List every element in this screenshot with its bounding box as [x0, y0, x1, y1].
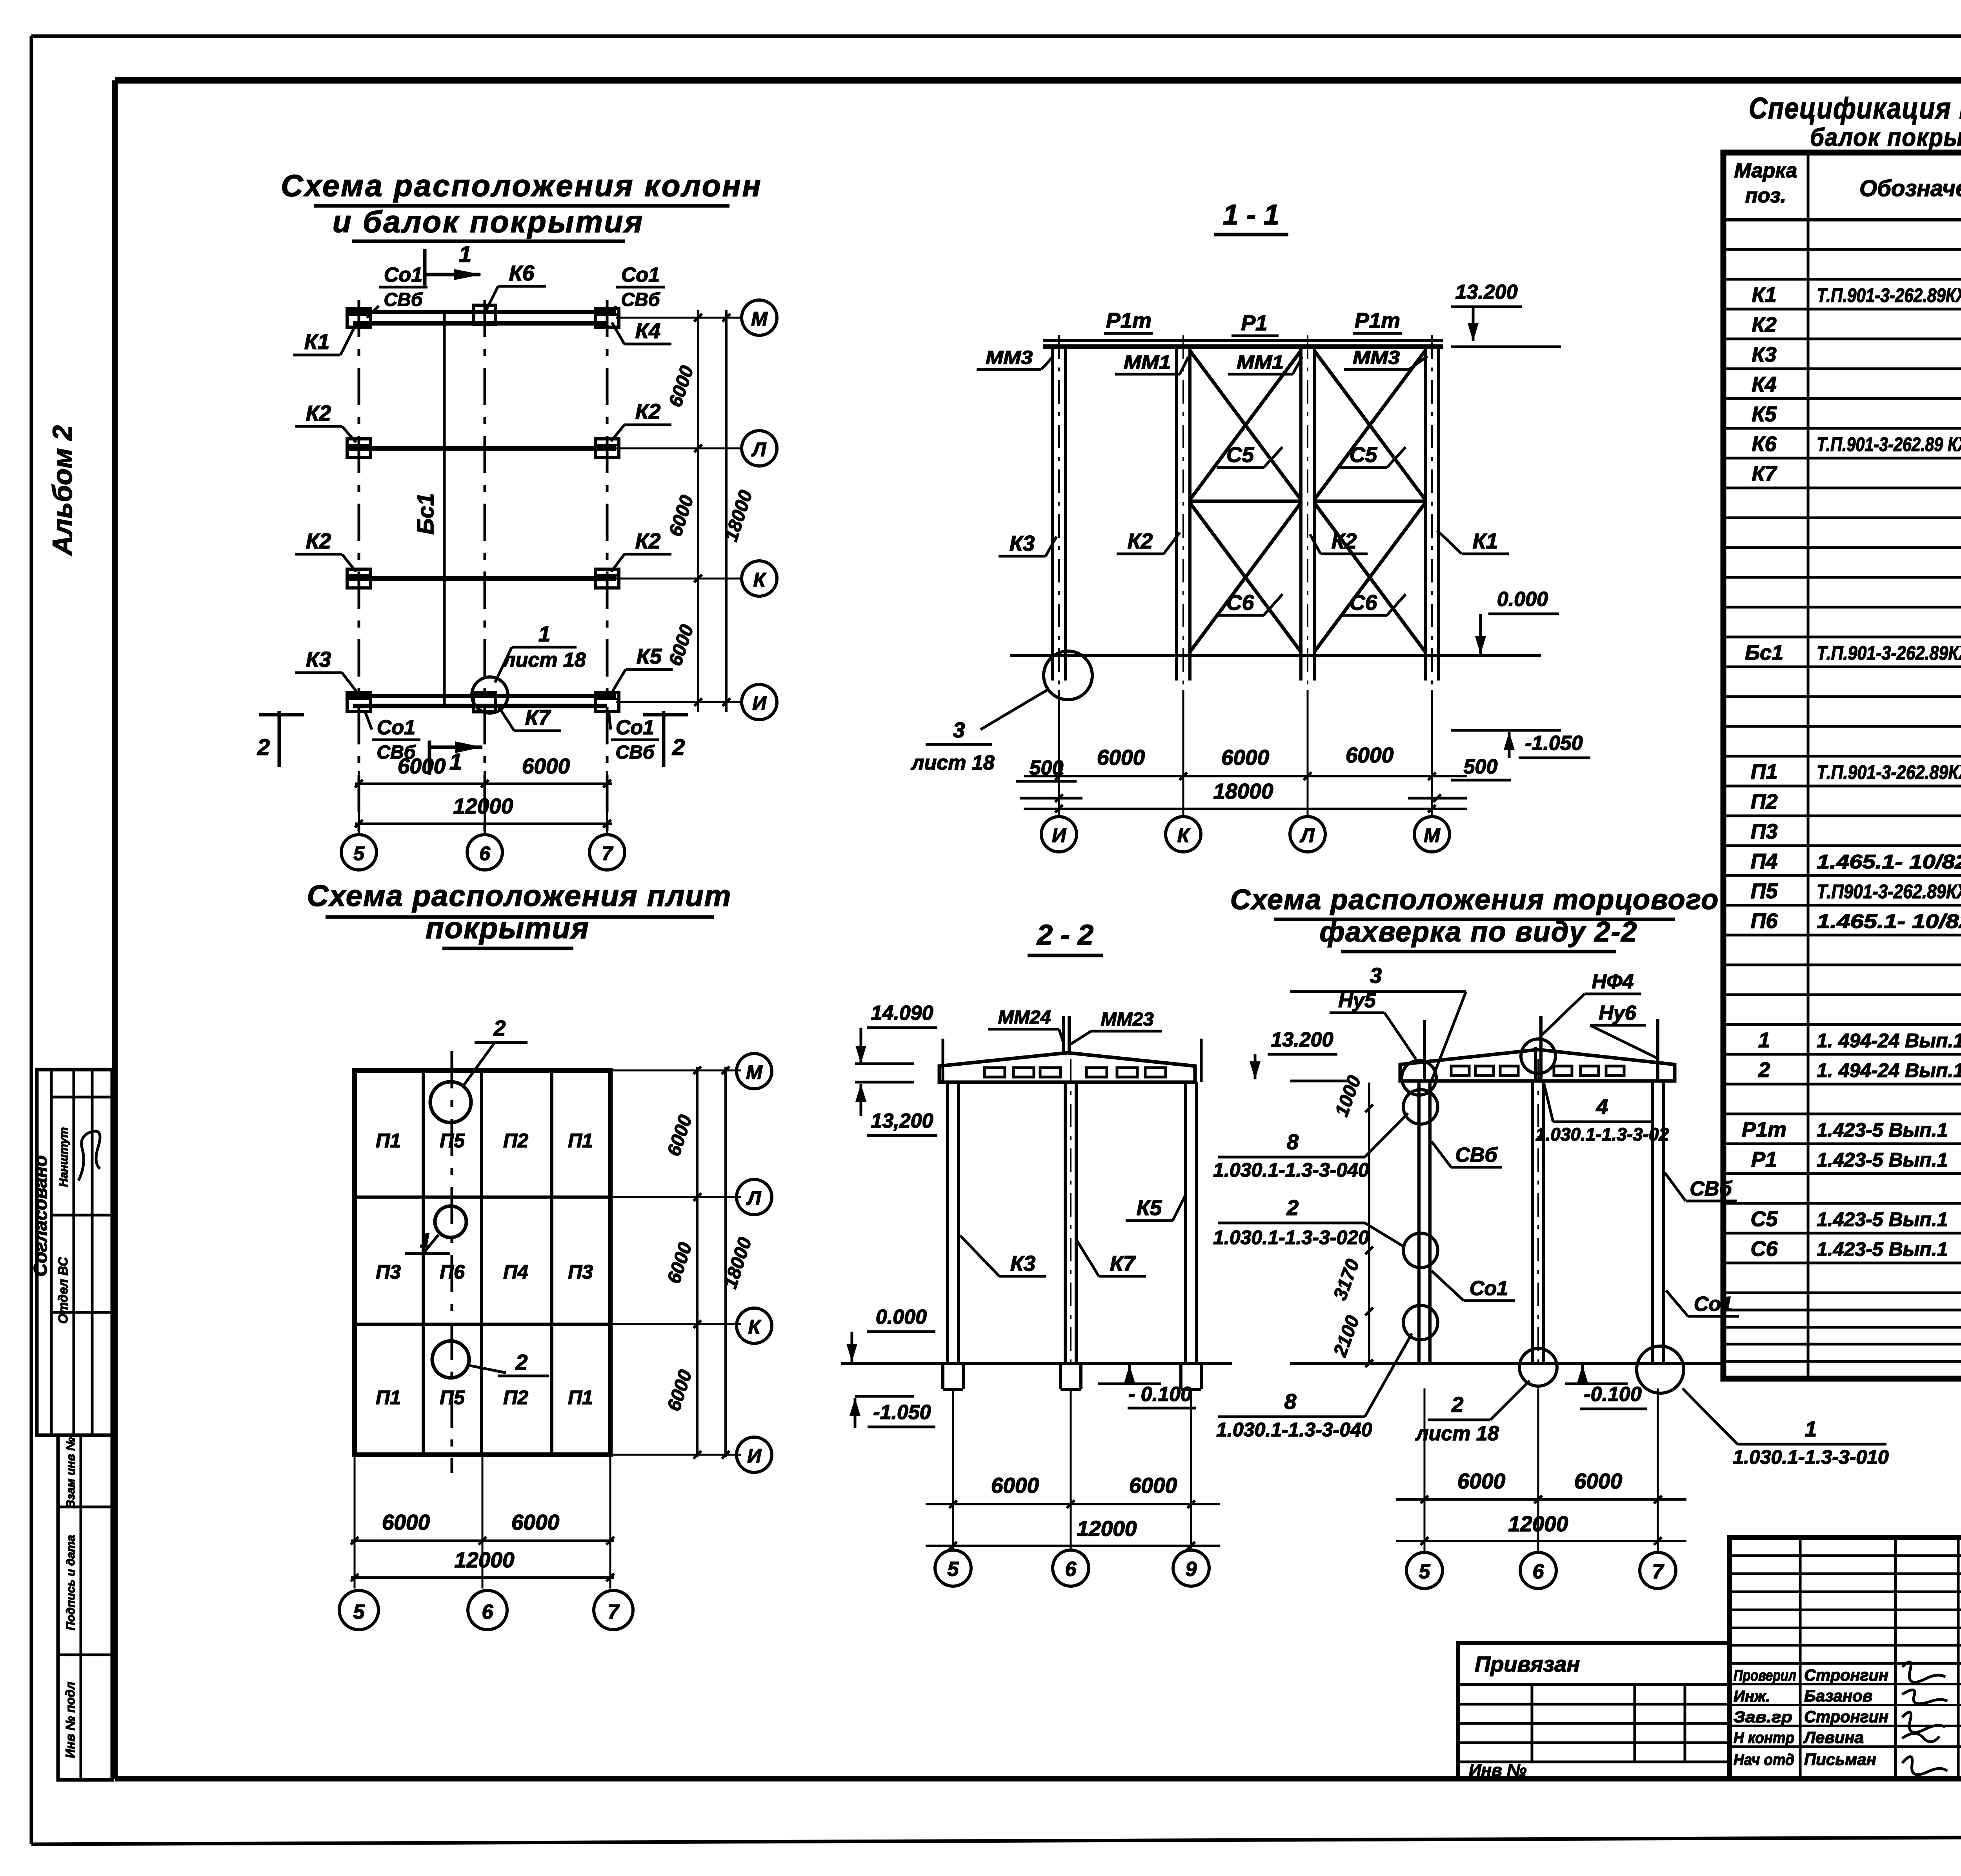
sidebar stamp block upper (Soglasovano): [30, 1070, 112, 1435]
section 2-2 column bases: [943, 1363, 1201, 1389]
svg-text:13.200: 13.200: [1455, 281, 1517, 304]
svg-text:П5: П5: [440, 1130, 465, 1152]
svg-text:2: 2: [493, 1016, 506, 1040]
svg-text:фахверка по виду 2-2: фахверка по виду 2-2: [1320, 916, 1638, 948]
plan: column K1: [347, 308, 371, 327]
svg-text:К4: К4: [1752, 373, 1776, 396]
fachwerk bottom dimensions: [1396, 1388, 1686, 1551]
spec table rows: [1742, 252, 1961, 1261]
svg-text:Р1: Р1: [1751, 1148, 1777, 1171]
svg-text:НФ4: НФ4: [1592, 970, 1634, 993]
svg-text:ММ24: ММ24: [998, 1007, 1051, 1028]
svg-text:К7: К7: [1110, 1251, 1136, 1276]
svg-text:5: 5: [1419, 1560, 1431, 1583]
svg-text:П5: П5: [1751, 879, 1778, 903]
svg-text:1. 494-24 Вып.1: 1. 494-24 Вып.1: [1817, 1059, 1961, 1081]
svg-text:500: 500: [1464, 755, 1498, 778]
svg-text:П1: П1: [568, 1387, 593, 1408]
svg-text:1: 1: [459, 242, 471, 267]
svg-text:Со1: Со1: [1694, 1293, 1732, 1316]
svg-text:К2: К2: [306, 529, 331, 553]
svg-text:К2: К2: [1128, 529, 1153, 553]
svg-text:0.000: 0.000: [1497, 588, 1548, 611]
svg-text:и балок покрытия: и балок покрытия: [333, 204, 644, 239]
plan: axis centerlines: [359, 300, 607, 835]
svg-text:12000: 12000: [1077, 1516, 1137, 1541]
svg-text:2: 2: [257, 735, 270, 760]
plan: label Co1/SVb top-left: [367, 264, 427, 318]
svg-text:Инж.: Инж.: [1734, 1688, 1770, 1705]
section 1-1 labels C5: [1217, 442, 1406, 468]
plan: label K2 right row K: [611, 529, 671, 572]
svg-text:-0.100: -0.100: [1584, 1383, 1642, 1406]
section 1-1 labels MM3 MM1: [977, 348, 1428, 374]
plan: beam row K: [347, 576, 616, 581]
svg-text:Письман: Письман: [1804, 1750, 1876, 1769]
svg-text:К5: К5: [1752, 402, 1777, 426]
svg-text:Р1т: Р1т: [1106, 308, 1151, 333]
svg-text:Р1т: Р1т: [1742, 1118, 1786, 1141]
svg-text:6: 6: [1065, 1558, 1077, 1581]
svg-text:5: 5: [948, 1558, 959, 1581]
svg-text:К5: К5: [1137, 1195, 1162, 1220]
plan: bottom dimension lines: [355, 754, 612, 833]
svg-text:СВб: СВб: [1690, 1177, 1732, 1200]
svg-text:ММ23: ММ23: [1101, 1009, 1154, 1030]
fachwerk level 13.200: [1250, 1028, 1349, 1081]
plan: column K2 row L left: [347, 439, 371, 458]
section 1-1 labels C6: [1217, 590, 1406, 615]
svg-text:СВб: СВб: [384, 289, 423, 310]
svg-text:1.465.1- 10/82 Вып.1: 1.465.1- 10/82 Вып.1: [1817, 910, 1961, 932]
fachwerk label 1 / 1.030.1-1.3-3-010: [1683, 1388, 1889, 1468]
svg-text:2 - 2: 2 - 2: [1036, 919, 1093, 951]
plan: bottom axis circles 5 6 7: [341, 835, 625, 870]
svg-text:И: И: [747, 1445, 762, 1467]
title block main: [1730, 1538, 1961, 1780]
svg-text:6: 6: [482, 1601, 494, 1623]
section 2-2 level 0.000: [846, 1306, 935, 1362]
svg-text:К3: К3: [1752, 343, 1776, 366]
fachwerk axis circles 5 6 7: [1406, 1552, 1676, 1589]
svg-text:С6: С6: [1750, 1237, 1778, 1261]
fachwerk ridge balloon: [1521, 1039, 1555, 1074]
svg-text:1.030.1-1.3-3-020: 1.030.1-1.3-3-020: [1213, 1226, 1369, 1248]
svg-text:5: 5: [353, 1601, 365, 1623]
svg-text:6: 6: [1533, 1560, 1544, 1583]
svg-text:Ну5: Ну5: [1338, 989, 1376, 1012]
svg-text:ММ3: ММ3: [1353, 348, 1400, 368]
fachwerk bottom balloons: [1519, 1346, 1684, 1393]
svg-text:Стронгин: Стронгин: [1804, 1666, 1888, 1684]
title: scheme of columns and beams: [281, 168, 762, 241]
svg-text:К7: К7: [1752, 462, 1777, 486]
svg-text:1.423-5 Вып.1: 1.423-5 Вып.1: [1817, 1208, 1948, 1230]
svg-text:П2: П2: [503, 1387, 528, 1408]
svg-text:П2: П2: [503, 1130, 528, 1152]
svg-text:К2: К2: [1752, 313, 1776, 337]
plan: roof beams row M: [347, 312, 616, 323]
plates plan grid: [355, 1070, 610, 1455]
svg-text:СВб: СВб: [615, 742, 655, 763]
privyazan block: [1458, 1643, 1730, 1780]
plan: label Co1/SVb top-right: [612, 264, 665, 314]
section 1-1 braces X lower K-L: [1190, 503, 1301, 652]
plates plan detail circles: [405, 1016, 549, 1378]
svg-text:1: 1: [538, 622, 551, 646]
svg-text:М: М: [1424, 824, 1441, 846]
svg-text:Подпись и дата: Подпись и дата: [64, 1535, 77, 1630]
title block signatures: [1734, 1662, 1947, 1774]
svg-text:К3: К3: [1010, 1251, 1035, 1276]
fachwerk columns: [1419, 1016, 1663, 1363]
plan: column K6: [474, 305, 496, 325]
svg-text:К1: К1: [304, 329, 329, 354]
svg-text:Со1: Со1: [377, 716, 415, 739]
svg-text:12000: 12000: [453, 794, 513, 818]
section 2-2 level 13.200: [855, 1082, 937, 1135]
section 2-2 roof beam: [939, 1016, 1195, 1082]
svg-text:6000: 6000: [1457, 1469, 1506, 1493]
svg-text:С5: С5: [1226, 442, 1255, 467]
section 1-1 braces X upper K-L: [1190, 351, 1301, 501]
svg-text:Левина: Левина: [1803, 1728, 1864, 1747]
svg-text:К6: К6: [509, 261, 535, 285]
svg-text:Схема расположения торцового: Схема расположения торцового: [1230, 884, 1719, 915]
svg-text:Ну6: Ну6: [1599, 1002, 1636, 1024]
svg-text:Нач отд: Нач отд: [1734, 1751, 1794, 1769]
svg-text:лист 18: лист 18: [910, 751, 995, 774]
svg-text:Нанштут: Нанштут: [57, 1127, 70, 1187]
svg-text:П6: П6: [440, 1261, 465, 1283]
fachwerk label SVb left: [1432, 1141, 1502, 1167]
plan: column K2 row L right: [595, 439, 619, 458]
plan: section flag 2 left: [257, 711, 304, 767]
section 1-1 dim 500 left: [1016, 757, 1082, 802]
fachwerk label 4 / 1.030.1-1.3-3-02: [1535, 1083, 1669, 1145]
svg-text:Со1: Со1: [616, 716, 654, 739]
svg-text:К6: К6: [1752, 432, 1777, 456]
fachwerk label Co1 left: [1432, 1271, 1515, 1301]
plate labels row 1: [376, 1130, 593, 1152]
svg-text:П1: П1: [376, 1387, 401, 1408]
plan: label K7: [498, 705, 561, 731]
section 1-1 bottom dimensions: [1024, 690, 1467, 815]
svg-text:Стронгин: Стронгин: [1804, 1707, 1888, 1726]
svg-text:Привязан: Привязан: [1475, 1652, 1580, 1676]
section 1-1 columns: [1052, 335, 1439, 690]
svg-text:К2: К2: [306, 401, 331, 425]
fachwerk label 2 / list 18: [1415, 1381, 1530, 1445]
svg-text:Р1: Р1: [1241, 311, 1267, 335]
section 1-1 base detail circle and label 3 list 18: [910, 651, 1092, 774]
plan: column K5: [595, 693, 619, 711]
section 1-1 level -1.050: [1451, 730, 1590, 758]
section 1-1 title: [1214, 199, 1288, 235]
svg-text:К1: К1: [1752, 283, 1776, 307]
svg-text:С6: С6: [1350, 590, 1377, 615]
svg-text:К5: К5: [637, 644, 662, 668]
svg-text:лист 18: лист 18: [1415, 1422, 1499, 1445]
plan: beam row L: [347, 446, 616, 451]
plan: column K3: [347, 693, 371, 711]
spec table grid: [1723, 153, 1961, 1379]
title: scheme of roof plates: [307, 879, 732, 948]
fachwerk level -0.100: [1565, 1365, 1647, 1409]
fachwerk title: [1230, 884, 1719, 952]
svg-text:6000: 6000: [991, 1473, 1039, 1498]
plan: section flag 2 right: [643, 711, 688, 767]
svg-text:Зав.гр: Зав.гр: [1734, 1709, 1792, 1726]
spec table title: [1749, 92, 1961, 151]
svg-text:Т.П.901-3-262.89КЖИ.50.0.0.0: Т.П.901-3-262.89КЖИ.50.0.0.0: [1817, 642, 1961, 664]
svg-text:5: 5: [353, 842, 365, 864]
svg-text:Со1: Со1: [621, 264, 660, 286]
svg-text:Инв №: Инв №: [1469, 1761, 1526, 1780]
svg-text:С5: С5: [1750, 1207, 1778, 1231]
plan: beam Bc1 line: [443, 310, 446, 706]
svg-text:И: И: [1052, 824, 1066, 846]
section 1-1 labels K3 K2 K2 K1: [999, 529, 1509, 556]
svg-text:Инв № подл: Инв № подл: [63, 1681, 77, 1758]
svg-text:Н контр: Н контр: [1734, 1729, 1794, 1747]
plan: axis circles M L K I: [742, 300, 777, 720]
svg-text:П3: П3: [376, 1261, 401, 1283]
plan: column K2 row K left: [347, 569, 371, 588]
svg-text:С6: С6: [1226, 590, 1254, 615]
svg-text:0.000: 0.000: [876, 1306, 927, 1328]
plan: right dimension lines: [665, 310, 757, 712]
svg-text:2: 2: [672, 735, 685, 760]
svg-text:1.423-5 Вып.1: 1.423-5 Вып.1: [1817, 1149, 1948, 1171]
svg-text:1.030.1-1.3-3-02: 1.030.1-1.3-3-02: [1535, 1124, 1669, 1145]
svg-text:Л: Л: [746, 1187, 762, 1209]
section 2-2 level 14.090: [855, 1002, 937, 1064]
plates plan bottom axis circles: [339, 1590, 633, 1630]
svg-text:6: 6: [479, 842, 491, 864]
svg-text:1.030.1-1.3-3-040: 1.030.1-1.3-3-040: [1213, 1159, 1369, 1181]
svg-text:Т.П.901-3-262.89КЖ.И.20.0.0.0: Т.П.901-3-262.89КЖ.И.20.0.0.0: [1817, 284, 1961, 306]
svg-text:6000: 6000: [1346, 743, 1394, 767]
svg-text:1 - 1: 1 - 1: [1223, 199, 1279, 231]
svg-text:6000: 6000: [511, 1510, 560, 1534]
section 1-1 level 0.000: [1475, 588, 1559, 654]
fachwerk label SVb right: [1665, 1173, 1737, 1201]
fachwerk label 8 / 1.030.1-1.3-3-040 upper: [1213, 1113, 1408, 1181]
plates plan centerline: [451, 1051, 453, 1473]
section 2-2 level -0.100: [1098, 1365, 1196, 1408]
svg-text:Со1: Со1: [384, 264, 422, 286]
svg-text:6000: 6000: [382, 1510, 430, 1534]
svg-text:3: 3: [1370, 963, 1382, 988]
svg-text:К2: К2: [635, 529, 661, 553]
svg-text:12000: 12000: [1508, 1512, 1568, 1536]
section 1-1 top beam: [1043, 340, 1443, 347]
svg-text:6000: 6000: [1221, 745, 1270, 770]
svg-text:1: 1: [1758, 1028, 1770, 1052]
svg-text:9: 9: [1186, 1558, 1197, 1581]
svg-text:13,200: 13,200: [871, 1110, 933, 1132]
svg-text:1.030.1-1.3-3-040: 1.030.1-1.3-3-040: [1216, 1419, 1372, 1441]
svg-text:-1.050: -1.050: [873, 1401, 931, 1424]
svg-text:7: 7: [1652, 1560, 1664, 1583]
spec table headers: [1734, 158, 1961, 216]
svg-text:П5: П5: [440, 1387, 465, 1408]
section 2-2 labels K3 K7 K5: [960, 1195, 1185, 1276]
svg-text:П6: П6: [1751, 909, 1778, 933]
svg-text:14.090: 14.090: [871, 1002, 933, 1024]
svg-text:Альбом 2: Альбом 2: [47, 425, 78, 556]
svg-text:К2: К2: [635, 399, 661, 424]
svg-text:1.423-5 Вып.1: 1.423-5 Вып.1: [1817, 1238, 1948, 1260]
svg-text:Отдел ВС: Отдел ВС: [56, 1257, 70, 1324]
section 2-2 axis circles 5 6 9: [935, 1550, 1209, 1586]
svg-text:Спецификация к схеме расположе: Спецификация к схеме расположения колонн…: [1749, 92, 1961, 125]
svg-text:Бс1: Бс1: [1745, 641, 1783, 664]
svg-text:М: М: [746, 1061, 763, 1083]
svg-text:2: 2: [1758, 1058, 1770, 1082]
section 2-2 level -1.050: [850, 1396, 935, 1428]
svg-text:Марка: Марка: [1734, 159, 1797, 182]
svg-text:И: И: [752, 692, 767, 714]
plan: section flag 1 bottom: [429, 741, 482, 775]
svg-text:Взам инв №: Взам инв №: [64, 1437, 77, 1508]
svg-text:Со1: Со1: [1470, 1277, 1508, 1300]
svg-text:2: 2: [515, 1350, 528, 1374]
svg-text:1.030.1-1.3-3-010: 1.030.1-1.3-3-010: [1733, 1446, 1889, 1468]
section 2-2 columns: [943, 1039, 1201, 1363]
svg-text:Схема расположения плит: Схема расположения плит: [307, 879, 732, 913]
plan: row axis extension lines: [616, 318, 742, 702]
plate labels row 2: [376, 1261, 593, 1283]
plan: label K6: [486, 261, 546, 310]
svg-text:П1: П1: [568, 1130, 593, 1152]
svg-text:П1: П1: [376, 1130, 401, 1152]
svg-text:2: 2: [1451, 1392, 1464, 1417]
plan: label 1 list 18: [495, 622, 586, 682]
svg-text:П1: П1: [1751, 760, 1778, 784]
plan: beams row I: [347, 696, 616, 706]
svg-text:7: 7: [602, 842, 613, 864]
svg-text:2: 2: [1286, 1195, 1299, 1220]
fachwerk leader balloons on column 5: [1402, 1061, 1438, 1340]
section 1-1 level 13.200: [1451, 281, 1561, 347]
svg-text:С5: С5: [1350, 442, 1378, 467]
plan: label K3: [295, 647, 356, 691]
plan: column K4: [595, 308, 619, 327]
section 1-1 dim 500 right: [1408, 755, 1511, 802]
svg-text:1: 1: [449, 749, 462, 775]
svg-text:8: 8: [1287, 1130, 1299, 1154]
plates plan bottom dimensions: [351, 1455, 614, 1589]
svg-text:К3: К3: [1010, 531, 1035, 555]
plate labels row 3: [376, 1387, 593, 1408]
plan: column K2 row K right: [595, 569, 619, 588]
svg-text:М: М: [751, 308, 768, 330]
svg-text:- 0.100: - 0.100: [1128, 1383, 1192, 1406]
plan: label K2 right row L: [611, 399, 671, 441]
svg-text:СВб: СВб: [621, 289, 660, 310]
svg-text:13.200: 13.200: [1271, 1028, 1333, 1051]
section 2-2 ground line: [841, 1362, 1232, 1365]
plan: label K5: [613, 644, 673, 691]
plan: label K2 left row K: [295, 529, 356, 572]
svg-text:СВб: СВб: [1455, 1144, 1498, 1166]
svg-text:6000: 6000: [522, 754, 570, 778]
fachwerk label Co1 right: [1666, 1290, 1739, 1316]
svg-text:К: К: [748, 1316, 762, 1338]
plan: label K4: [612, 318, 671, 344]
svg-text:7: 7: [608, 1601, 620, 1623]
svg-text:Базанов: Базанов: [1804, 1687, 1872, 1705]
plan: label Co1/SVb bottom-left: [365, 711, 420, 763]
svg-text:1: 1: [420, 1229, 431, 1252]
plan: label K1: [293, 326, 355, 355]
svg-text:4: 4: [1596, 1094, 1608, 1119]
svg-text:-1.050: -1.050: [1525, 732, 1583, 755]
svg-text:К1: К1: [1473, 529, 1498, 553]
svg-text:1: 1: [1805, 1417, 1817, 1441]
svg-text:Л: Л: [751, 439, 767, 460]
svg-text:12000: 12000: [455, 1548, 515, 1572]
plan: label K2 left row L: [295, 401, 356, 442]
fachwerk label 3: [1290, 963, 1466, 1083]
section 2-2 labels MM24 MM23: [988, 1007, 1162, 1044]
fachwerk ground line: [1290, 1362, 1726, 1365]
svg-text:К: К: [1177, 824, 1191, 846]
svg-text:Т.П.901-3-262.89 КЖ.Н.21.0.0.0: Т.П.901-3-262.89 КЖ.Н.21.0.0.0: [1817, 433, 1961, 455]
section 2-2 title: [1028, 919, 1103, 955]
svg-text:6000: 6000: [1129, 1473, 1177, 1498]
svg-text:Бс1: Бс1: [413, 493, 438, 535]
section 1-1 braces X lower L-M: [1314, 503, 1425, 652]
plan: label Co1/SVb bottom-right: [609, 711, 659, 763]
svg-text:К2: К2: [1332, 529, 1357, 553]
svg-text:ММ1: ММ1: [1124, 352, 1171, 373]
svg-text:Р1т: Р1т: [1355, 308, 1400, 333]
svg-text:П2: П2: [1751, 790, 1778, 813]
plan: section flag 1 top: [425, 242, 482, 286]
svg-text:18000: 18000: [1213, 779, 1273, 803]
svg-text:лист 18: лист 18: [502, 649, 586, 671]
section 1-1 labels P1t P1: [1104, 308, 1402, 336]
sidebar stamp block lower (Inv/Podpis): [58, 1435, 112, 1780]
svg-text:П3: П3: [1751, 820, 1778, 843]
svg-text:П4: П4: [1751, 850, 1778, 873]
fachwerk roof beam: [1400, 1050, 1675, 1081]
svg-text:Обозначение: Обозначение: [1859, 176, 1961, 201]
section 2-2 bottom dimensions: [926, 1389, 1220, 1550]
svg-text:К4: К4: [635, 318, 660, 343]
svg-text:6000: 6000: [398, 754, 446, 778]
section 1-1 ground line: [1010, 654, 1541, 657]
svg-text:Т.П901-3-262.89КЖИ.41.0.0.0: Т.П901-3-262.89КЖИ.41.0.0.0: [1817, 881, 1961, 903]
svg-text:Согласовано: Согласовано: [30, 1155, 51, 1277]
svg-text:Л: Л: [1300, 824, 1315, 846]
svg-text:1. 494-24 Вып.1: 1. 494-24 Вып.1: [1817, 1030, 1961, 1052]
svg-text:8: 8: [1284, 1389, 1297, 1414]
svg-text:П4: П4: [503, 1261, 528, 1283]
fachwerk vertical dims 1000 3170 2100: [1330, 1073, 1373, 1367]
fachwerk labels Nu5 NF4 Nu6: [1330, 970, 1659, 1059]
plates plan right axis circles: [737, 1054, 772, 1472]
svg-text:П3: П3: [568, 1261, 593, 1283]
svg-text:1.423-5 Вып.1: 1.423-5 Вып.1: [1817, 1119, 1948, 1141]
svg-text:К3: К3: [306, 647, 331, 671]
svg-text:3: 3: [953, 718, 965, 742]
svg-text:6000: 6000: [1097, 745, 1145, 770]
svg-text:ММ3: ММ3: [986, 348, 1033, 368]
